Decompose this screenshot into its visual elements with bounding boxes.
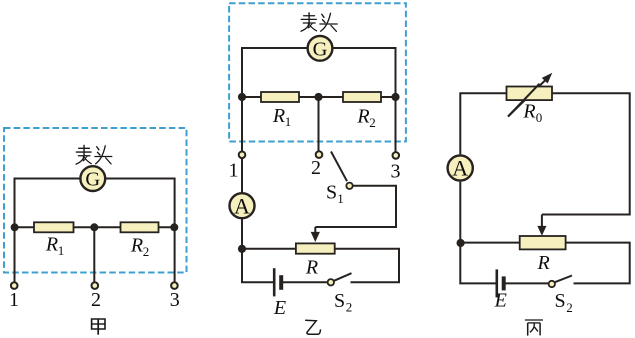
svg-text:2: 2 xyxy=(369,115,376,130)
svg-text:S: S xyxy=(554,290,565,312)
svg-text:R: R xyxy=(130,235,143,257)
svg-text:2: 2 xyxy=(346,299,353,314)
svg-text:2: 2 xyxy=(143,244,150,259)
svg-text:1: 1 xyxy=(9,289,19,311)
svg-text:G: G xyxy=(85,169,100,191)
svg-text:R: R xyxy=(45,234,58,256)
svg-text:R: R xyxy=(305,256,318,278)
svg-text:2: 2 xyxy=(311,157,321,179)
svg-text:S: S xyxy=(334,290,345,312)
svg-text:G: G xyxy=(313,38,328,60)
svg-text:R: R xyxy=(272,105,285,127)
svg-text:S: S xyxy=(326,182,337,204)
svg-text:1: 1 xyxy=(285,114,292,129)
svg-text:1: 1 xyxy=(229,160,239,182)
svg-text:3: 3 xyxy=(170,289,180,311)
svg-text:2: 2 xyxy=(91,289,101,311)
svg-text:R: R xyxy=(536,252,549,274)
svg-text:2: 2 xyxy=(566,300,573,315)
svg-text:A: A xyxy=(452,155,468,180)
svg-text:A: A xyxy=(234,193,250,218)
svg-text:3: 3 xyxy=(391,161,401,183)
svg-text:E: E xyxy=(273,297,286,319)
svg-text:R: R xyxy=(522,101,535,123)
svg-text:1: 1 xyxy=(58,243,65,258)
svg-text:1: 1 xyxy=(337,191,344,206)
svg-text:0: 0 xyxy=(536,110,543,125)
svg-text:E: E xyxy=(494,289,507,311)
svg-text:R: R xyxy=(356,106,369,128)
